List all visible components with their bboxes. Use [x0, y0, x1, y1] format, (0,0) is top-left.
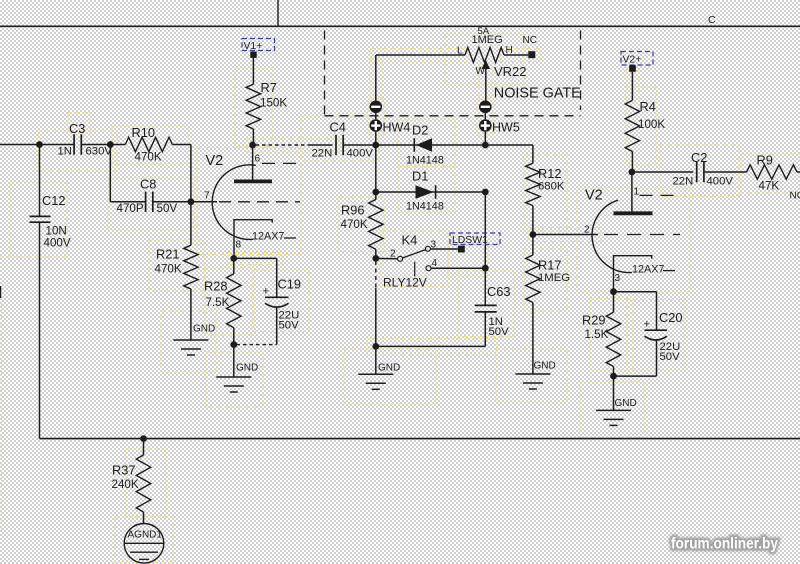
- port LDSW1 label box: [450, 233, 500, 245]
- svg-text:150K: 150K: [260, 97, 287, 110]
- wire to mid GND: [375, 346, 377, 374]
- svg-text:6: 6: [255, 154, 261, 165]
- watermark forum.onliner.by: [671, 536, 778, 553]
- wire C20 bottom row: [614, 375, 657, 377]
- wire D2 row: [376, 144, 486, 146]
- svg-text:C: C: [708, 14, 716, 26]
- svg-text:R17: R17: [538, 258, 561, 273]
- svg-text:D2: D2: [412, 123, 428, 138]
- svg-text:NC: NC: [790, 191, 800, 202]
- junction R4/C2/plate: [629, 169, 636, 176]
- wire K4 pin3 to LDSW1: [430, 248, 458, 250]
- resistor R10: [125, 125, 172, 164]
- resistor R7: [246, 80, 287, 129]
- wire HW5 col down: [484, 192, 486, 268]
- port V1+ pin square: [250, 52, 256, 58]
- svg-text:R29: R29: [582, 313, 605, 328]
- connector HW4: [370, 101, 411, 135]
- junction GND mid: [372, 343, 379, 350]
- wire input to C3: [0, 144, 74, 146]
- svg-text:C4: C4: [330, 120, 346, 135]
- svg-text:C63: C63: [487, 284, 510, 299]
- ground under R17: [515, 361, 555, 390]
- svg-text:470K: 470K: [341, 218, 368, 231]
- svg-text:100K: 100K: [638, 118, 665, 131]
- svg-text:V2: V2: [585, 188, 603, 204]
- wire K4 pin4 row: [431, 267, 485, 269]
- svg-text:680K: 680K: [538, 181, 565, 193]
- svg-text:RLY12V: RLY12V: [383, 276, 427, 290]
- junction D2/HW5: [482, 142, 489, 149]
- svg-text:L: L: [457, 46, 463, 57]
- svg-text:W: W: [476, 66, 486, 77]
- svg-text:1MEG: 1MEG: [538, 272, 570, 284]
- junction C3/R10/C8: [107, 141, 114, 148]
- port V1+ label box: [242, 39, 275, 51]
- wire C8 left leg: [109, 145, 111, 202]
- wire D1 row: [376, 191, 486, 193]
- wire dashed node to C4: [256, 144, 309, 146]
- svg-text:C3: C3: [69, 121, 85, 136]
- junction R28/C19 bottom: [230, 341, 237, 348]
- op-amp V2 right triode 12AX7: [584, 172, 681, 292]
- svg-text:VR22: VR22: [494, 64, 527, 79]
- svg-text:V2: V2: [206, 153, 224, 169]
- svg-text:GND: GND: [615, 398, 637, 409]
- svg-text:R96: R96: [341, 203, 364, 218]
- svg-text:470K: 470K: [135, 151, 162, 164]
- resistor R96: [341, 192, 384, 258]
- wire HW5 to node: [484, 132, 486, 145]
- svg-text:forum.onliner.by: forum.onliner.by: [671, 536, 778, 553]
- ground under R29: [596, 398, 637, 425]
- wire grid node to V2 pin 7: [191, 201, 217, 203]
- wire R9 to edge: [797, 171, 800, 173]
- junction cathode right: [610, 288, 617, 295]
- svg-text:3: 3: [615, 273, 621, 284]
- port LDSW1 pin square: [458, 246, 465, 253]
- diode D2 1N4148: [406, 123, 444, 167]
- svg-text:C19: C19: [278, 277, 301, 292]
- capacitor C63: [475, 268, 511, 346]
- capacitor C4: [312, 120, 374, 160]
- capacitor C19: [263, 258, 301, 344]
- svg-text:HW5: HW5: [492, 121, 520, 135]
- wire C63 bottom row: [376, 345, 486, 347]
- port V2+ label box: [621, 52, 653, 66]
- svg-text:4: 4: [432, 258, 438, 269]
- junction grid node pin7: [188, 198, 195, 205]
- junction pin4/C63: [482, 265, 489, 272]
- svg-text:400V: 400V: [707, 176, 734, 188]
- junction cathode left: [230, 255, 237, 262]
- ground AGND1: [124, 524, 164, 564]
- svg-text:1.5K: 1.5K: [585, 328, 609, 341]
- svg-text:1MEG: 1MEG: [472, 34, 503, 46]
- noise gate dashed boundary: [325, 31, 581, 116]
- wire cathode node to C20: [614, 291, 657, 293]
- svg-text:HW4: HW4: [383, 121, 411, 135]
- svg-text:R37: R37: [112, 463, 135, 478]
- connector HW5: [479, 101, 520, 135]
- svg-text:240K: 240K: [112, 478, 139, 491]
- capacitor C12: [30, 145, 71, 250]
- wire cathode node to C19: [234, 257, 277, 259]
- junction R96 top/D1: [372, 189, 379, 196]
- svg-text:C8: C8: [140, 177, 156, 192]
- capacitor C8: [117, 177, 178, 216]
- resistor R37: [112, 439, 151, 524]
- wire to GND under R29: [613, 376, 615, 410]
- wire bottom bus: [40, 438, 800, 440]
- svg-text:1: 1: [634, 187, 640, 198]
- svg-text:GND: GND: [378, 363, 400, 374]
- svg-text:D1: D1: [412, 169, 428, 184]
- svg-text:C2: C2: [691, 150, 707, 165]
- junction R7/plate/C4: [249, 142, 256, 149]
- svg-text:R28: R28: [204, 279, 227, 294]
- wire V2+ to R4: [631, 72, 633, 101]
- svg-text:22N: 22N: [673, 176, 694, 188]
- junction input/C12: [36, 141, 43, 148]
- svg-text:400V: 400V: [347, 148, 374, 160]
- wire C4 to HW4 column: [343, 144, 376, 146]
- svg-text:50V: 50V: [489, 326, 510, 338]
- svg-text:R21: R21: [156, 247, 179, 262]
- svg-text:400V: 400V: [44, 237, 71, 250]
- wire C3 to R10: [81, 144, 110, 146]
- wire between HW4 pads: [375, 113, 377, 119]
- svg-text:7: 7: [204, 191, 210, 202]
- op-amp V2 left triode 12AX7: [204, 145, 300, 258]
- svg-text:LDSW1: LDSW1: [452, 235, 488, 246]
- wire R7 to node: [252, 129, 254, 145]
- svg-text:2: 2: [584, 225, 590, 236]
- wire HW4 col D2-D1: [375, 145, 377, 192]
- junction R37 top: [140, 435, 147, 442]
- svg-text:50V: 50V: [660, 351, 681, 363]
- resistor R9: [747, 153, 798, 193]
- svg-text:GND: GND: [236, 363, 258, 374]
- svg-text:+: +: [263, 286, 270, 298]
- svg-text:V1+: V1+: [244, 41, 263, 52]
- junction R29/C20 bottom: [610, 373, 617, 380]
- wire pot L down to HW4: [375, 55, 377, 101]
- wire R4 to plate node: [631, 152, 633, 173]
- svg-text:K4: K4: [402, 233, 418, 248]
- svg-text:R7: R7: [261, 80, 277, 95]
- wire between HW5 pads: [484, 113, 486, 119]
- svg-text:8: 8: [236, 240, 242, 251]
- wire C2 to R9: [704, 171, 747, 173]
- svg-text:630V: 630V: [86, 146, 113, 158]
- svg-text:7.5K: 7.5K: [206, 296, 230, 309]
- resistor R29: [582, 292, 621, 376]
- svg-text:R10: R10: [132, 125, 155, 140]
- junction R12/R17/grid: [530, 231, 537, 238]
- svg-text:V2+: V2+: [623, 55, 642, 66]
- wire R10 left lead: [110, 144, 125, 146]
- svg-text:GND: GND: [534, 361, 556, 372]
- capacitor C3: [58, 121, 113, 158]
- wire vertical stub to top bus: [277, 0, 279, 26]
- svg-text:12AX7: 12AX7: [632, 264, 664, 276]
- svg-text:470P: 470P: [117, 202, 144, 215]
- svg-text:NC: NC: [523, 35, 537, 46]
- svg-text:+: +: [644, 319, 651, 331]
- wire left edge stub: [0, 286, 2, 298]
- junction relay common: [372, 255, 379, 262]
- junction HW4/D2: [372, 142, 379, 149]
- resistor R12: [526, 163, 565, 234]
- svg-text:GND: GND: [193, 324, 215, 335]
- wire to GND under R28: [233, 345, 235, 377]
- diode D1 1N4148: [406, 169, 444, 213]
- relay K4 RLY12V: [376, 233, 438, 290]
- ground under R28: [216, 363, 258, 393]
- wire to V2 right pin 2: [533, 234, 598, 236]
- wire V1+ to R7: [252, 58, 254, 84]
- resistor R4: [625, 99, 665, 152]
- svg-text:C20: C20: [659, 310, 682, 325]
- svg-text:R12: R12: [538, 166, 561, 181]
- potentiometer VR22 1MEG: [376, 26, 537, 101]
- svg-text:1N4148: 1N4148: [406, 155, 444, 167]
- port NC square at VR22: [528, 51, 535, 58]
- svg-text:NOISE GATE: NOISE GATE: [494, 85, 581, 102]
- svg-text:2: 2: [390, 249, 396, 260]
- svg-text:AGND1: AGND1: [128, 530, 163, 541]
- svg-text:50V: 50V: [279, 320, 300, 332]
- wire C19 bottom dashed: [237, 344, 277, 346]
- svg-text:C12: C12: [42, 193, 65, 208]
- svg-text:H: H: [506, 45, 513, 56]
- resistor R17: [526, 235, 570, 375]
- wire C12 down left rail: [39, 222, 41, 438]
- svg-text:50V: 50V: [157, 202, 178, 215]
- resistor R21: [155, 202, 199, 340]
- svg-text:47K: 47K: [759, 180, 780, 193]
- svg-text:22N: 22N: [312, 148, 333, 160]
- junction D1/HW5 col: [482, 189, 489, 196]
- ground under R21: [173, 324, 215, 356]
- wire node to C2: [632, 171, 693, 173]
- svg-text:1N: 1N: [58, 146, 72, 158]
- wire R10 right to grid node: [172, 144, 191, 146]
- capacitor C2: [673, 150, 734, 188]
- svg-text:R4: R4: [640, 99, 656, 114]
- wire C8 right lead: [153, 201, 191, 203]
- wire HW5 node to R12: [485, 144, 533, 146]
- wire relay common dashed down: [375, 261, 377, 288]
- svg-text:1N4148: 1N4148: [406, 201, 444, 213]
- port V2+ pin square: [629, 65, 636, 72]
- wire top bus net C: [0, 25, 800, 27]
- svg-text:R9: R9: [757, 153, 773, 168]
- ground mid: [358, 363, 400, 390]
- svg-text:470K: 470K: [155, 263, 182, 276]
- capacitor C20: [644, 292, 683, 376]
- wire HW4 to D2 node: [375, 132, 377, 145]
- resistor R28: [204, 258, 241, 344]
- svg-text:12AX7: 12AX7: [252, 231, 284, 243]
